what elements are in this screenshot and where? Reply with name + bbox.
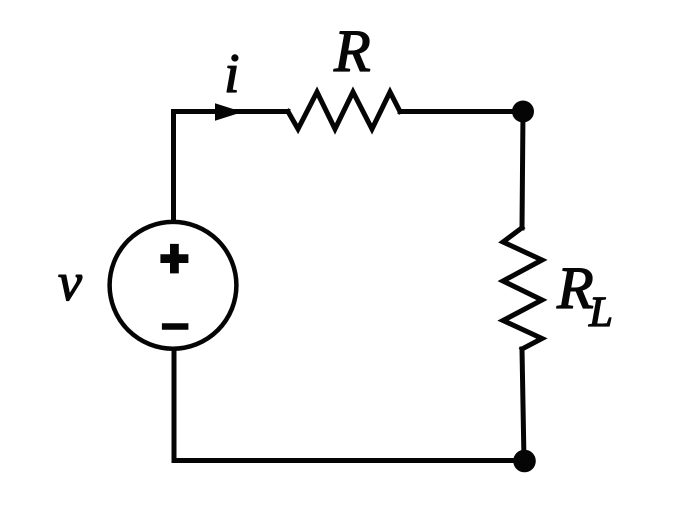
wire bottom (node b to source bottom) xyxy=(174,458,524,463)
label RL (load resistor) xyxy=(557,269,611,326)
label R (series resistor) xyxy=(334,32,370,71)
label v (source value) xyxy=(59,275,82,300)
minus terminal of source v xyxy=(162,323,189,330)
plus terminal of source v xyxy=(160,244,188,274)
resistor RL xyxy=(503,228,542,349)
wire right lower (resistor RL to node b) xyxy=(522,349,524,461)
wire top-right (resistor R to node a) xyxy=(400,109,523,114)
node b (junction dot bottom-right) xyxy=(513,450,536,473)
resistor R xyxy=(288,92,400,129)
wire bottom-left (bottom wire up to source) xyxy=(172,350,177,461)
voltage source v (circle symbol) xyxy=(110,222,237,349)
wire top-left (source top to resistor R) xyxy=(174,112,289,221)
wire right upper (node a to resistor RL) xyxy=(522,112,523,229)
label i (current) xyxy=(227,55,238,92)
node a (junction dot top-right) xyxy=(512,101,534,123)
current arrow i xyxy=(215,103,243,120)
